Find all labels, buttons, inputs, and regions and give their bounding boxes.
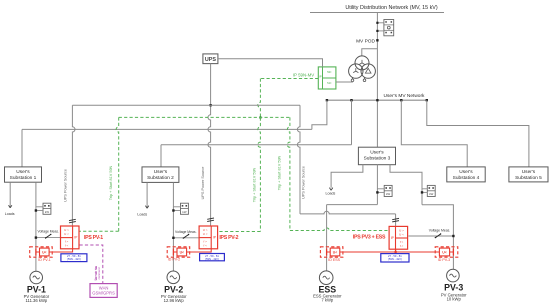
- svg-text:kW: kW: [429, 192, 433, 196]
- svg-text:Substation 2: Substation 2: [147, 175, 174, 181]
- green dashed: trip drop ESS/PV-3: [287, 117, 389, 230]
- meter PV-3 interconnection: [421, 185, 435, 196]
- svg-text:WAN: WAN: [99, 285, 109, 290]
- svg-text:User's MV Network: User's MV Network: [384, 93, 425, 99]
- wire: UPS feeder PV-1: [72, 105, 300, 226]
- generator PV-2: [167, 271, 180, 284]
- interface device ID PV-2: [167, 247, 190, 257]
- label voltage meas PV-3: [429, 229, 451, 233]
- svg-text:111.36 kWp: 111.36 kWp: [26, 298, 48, 303]
- svg-text:IP: IP: [319, 75, 322, 79]
- label trip start PV-2: [253, 167, 257, 202]
- svg-text:Loads: Loads: [5, 212, 15, 216]
- red wire: IPS PV-2 to ID PV-2: [190, 249, 211, 252]
- label PV-3: [441, 282, 467, 301]
- wire: voltage meas PV-3: [408, 233, 454, 238]
- transformer T1 (three-winding): [349, 56, 376, 82]
- label loads sub1: [5, 212, 15, 216]
- svg-text:IPS PV3 + ESS: IPS PV3 + ESS: [353, 235, 386, 241]
- label loads sub2: [137, 212, 147, 216]
- svg-text:(59N - 4kV): (59N - 4kV): [388, 257, 402, 261]
- svg-text:U <: U <: [64, 232, 69, 236]
- svg-text:U <: U <: [399, 233, 404, 237]
- svg-text:Loads: Loads: [326, 192, 336, 196]
- wire: sub3 loads stub: [329, 165, 363, 191]
- isolator on PV-2 UPS feed: [207, 218, 214, 222]
- svg-text:(59N - 4kV): (59N - 4kV): [67, 257, 81, 261]
- wire: sub2 loads stub: [145, 182, 148, 208]
- protection IPS PV-1: [61, 226, 80, 249]
- svg-text:GSM/GPRS: GSM/GPRS: [92, 291, 115, 296]
- label ID PV-1: [38, 258, 50, 262]
- label voltage meas PV-1: [38, 230, 60, 234]
- UPS: [203, 54, 218, 64]
- settings note PV-1: [61, 254, 87, 262]
- svg-text:UPS: UPS: [205, 57, 216, 63]
- svg-text:MV POD: MV POD: [356, 38, 375, 44]
- svg-text:UPS Power Source: UPS Power Source: [302, 166, 306, 199]
- svg-text:ID ESS: ID ESS: [328, 258, 340, 262]
- relay IP 59N-MV: [318, 67, 336, 89]
- wire: ESS feeder column: [327, 205, 378, 272]
- svg-text:U<: U<: [180, 250, 184, 254]
- svg-text:U<: U<: [442, 250, 446, 254]
- interface device ID PV-1: [30, 247, 53, 257]
- svg-text:Substation 3: Substation 3: [364, 155, 391, 161]
- svg-text:kW: kW: [182, 210, 186, 214]
- substation 3: [358, 147, 395, 165]
- svg-text:10 kWp: 10 kWp: [447, 296, 462, 301]
- isolator on ESS UPS feed: [392, 218, 399, 222]
- utility revenue meter: [376, 20, 393, 36]
- settings note PV3+ESS: [381, 254, 409, 262]
- WAN GSM/GPRS box: [90, 284, 117, 298]
- svg-text:UPS Power Source: UPS Power Source: [201, 167, 205, 200]
- svg-text:User's: User's: [154, 169, 168, 175]
- label IPS PV-2: [219, 235, 238, 241]
- feeder line D to substation 4: [401, 100, 467, 167]
- interface device ID ESS: [320, 247, 343, 257]
- svg-text:User's: User's: [16, 169, 30, 175]
- svg-text:U <: U <: [203, 232, 208, 236]
- node MV POD: [356, 38, 379, 44]
- svg-text:(59N - 4kV): (59N - 4kV): [205, 257, 219, 261]
- svg-text:IPS PV-2: IPS PV-2: [219, 235, 238, 241]
- protection IPS PV-2: [199, 226, 218, 249]
- substation 5: [509, 167, 548, 182]
- wire: sub1 loads stub: [9, 182, 12, 208]
- svg-text:Voltage Meas.: Voltage Meas.: [429, 229, 451, 233]
- generator PV-3: [447, 269, 460, 282]
- svg-text:Substation 1: Substation 1: [10, 175, 37, 181]
- svg-text:kW: kW: [386, 192, 390, 196]
- MV bus: [326, 99, 428, 101]
- wire: MV POD drop x=377: [376, 13, 378, 148]
- green dashed: trip drop PV-2: [218, 118, 261, 232]
- svg-text:Trip + Start 81V 59N: Trip + Start 81V 59N: [253, 167, 257, 202]
- red wire: IPS PV-1 to ID PV-1: [52, 249, 72, 252]
- svg-text:kW: kW: [45, 210, 49, 214]
- svg-text:f <: f <: [65, 244, 69, 248]
- svg-text:User's: User's: [370, 149, 384, 155]
- svg-text:ID PV-2: ID PV-2: [168, 257, 180, 261]
- generator PV-1: [30, 271, 43, 284]
- label PV-2: [161, 285, 187, 304]
- utility network label: [345, 5, 438, 11]
- wire: substation 2 riser: [160, 145, 162, 167]
- substation 2: [142, 167, 179, 183]
- substation 4: [447, 167, 485, 182]
- wire: UPS feeder trunk (PV-2): [208, 64, 212, 226]
- red wire: ESS to PV-3 interconnection: [343, 249, 436, 253]
- svg-text:Trip + Start 81V 59N: Trip + Start 81V 59N: [278, 155, 282, 190]
- svg-text:Remote trip: Remote trip: [93, 266, 97, 280]
- protection IPS PV3+ESS: [389, 226, 408, 249]
- isolator on PV-1 UPS feed: [69, 219, 76, 223]
- label IP 59N-MV: [293, 72, 314, 77]
- svg-text:IPS PV-1: IPS PV-1: [84, 235, 103, 241]
- label UPS power source PV-2: [201, 167, 205, 200]
- wire: sub3 right stub to PV-3: [390, 165, 422, 205]
- wire: voltage meas PV-2: [172, 234, 199, 239]
- green dashed: trip drop PV-1: [80, 117, 119, 231]
- svg-text:Utility Distribution Network (: Utility Distribution Network (MV, 15 kV): [345, 5, 438, 11]
- settings note PV-2: [200, 254, 225, 261]
- svg-text:Voltage Meas.: Voltage Meas.: [38, 230, 60, 234]
- svg-text:command: command: [97, 267, 101, 279]
- svg-text:51N: 51N: [327, 83, 332, 85]
- wire: UPS feeder ESS/PV-3: [297, 105, 395, 226]
- svg-text:Substation 5: Substation 5: [515, 175, 542, 181]
- svg-text:f <: f <: [203, 244, 207, 248]
- generator ESS: [319, 271, 333, 285]
- meter PV-1: [35, 203, 51, 214]
- feeder line B (y=144.7): [161, 100, 352, 145]
- label loads sub3: [326, 192, 336, 196]
- svg-text:ID PV-1: ID PV-1: [38, 258, 50, 262]
- wire: PV-1 feeder column: [35, 182, 37, 271]
- magenta dashed: remote trip link: [80, 245, 103, 284]
- feeder line C to substation 5: [427, 100, 529, 167]
- svg-text:PV-3: PV-3: [444, 282, 463, 292]
- wire: relay to transformer neutral: [336, 81, 353, 83]
- svg-text:Voltage Meas.: Voltage Meas.: [175, 230, 197, 234]
- label UPS power source ESS: [302, 166, 306, 199]
- meter sub3: [376, 185, 392, 196]
- svg-text:f <: f <: [400, 244, 404, 248]
- feeder line A (y=129.4): [22, 128, 312, 130]
- label ESS: [313, 285, 342, 303]
- label IPS PV3+ESS: [353, 235, 386, 241]
- interface device ID PV-3: [435, 247, 458, 257]
- label UPS power source PV-1: [64, 169, 68, 202]
- wire: voltage meas PV-1: [35, 234, 61, 239]
- svg-text:U<: U<: [42, 250, 46, 254]
- svg-text:User's: User's: [522, 169, 536, 175]
- svg-text:Substation 4: Substation 4: [453, 175, 480, 181]
- substation 1: [5, 167, 42, 182]
- label trip start PV-1: [109, 165, 113, 200]
- label IPS PV-1: [84, 235, 103, 241]
- wire: bus jog to feeder A: [312, 100, 327, 129]
- label ID PV-3: [438, 258, 450, 262]
- wire: transformer tap: [362, 49, 378, 56]
- utility MV line: [310, 12, 444, 14]
- svg-text:UPS Power Source: UPS Power Source: [64, 169, 68, 202]
- svg-text:ID PV-3: ID PV-3: [438, 258, 450, 262]
- wire: sub3 meter drop: [376, 165, 378, 205]
- label remote trip command: [93, 266, 101, 280]
- users MV network label: [384, 93, 425, 99]
- green dashed: trip bus horizontal: [119, 116, 290, 118]
- meter PV-2: [172, 203, 188, 214]
- wire: substation 1 riser: [21, 129, 23, 167]
- green dashed: relay trip bus: [258, 79, 318, 119]
- svg-text:Trip + Start 81V 59N: Trip + Start 81V 59N: [109, 165, 113, 200]
- label ID ESS: [328, 258, 340, 262]
- label voltage meas PV-2: [175, 230, 197, 234]
- wire: PV-3 feeder column: [422, 205, 453, 269]
- svg-text:U<: U<: [333, 250, 337, 254]
- wire: UPS to relay: [218, 59, 323, 67]
- svg-text:7 kWp: 7 kWp: [321, 297, 334, 302]
- svg-text:12.96 kWp: 12.96 kWp: [164, 298, 185, 303]
- svg-text:PV-2: PV-2: [164, 285, 183, 295]
- wire: PV-2 feeder column: [172, 182, 174, 271]
- svg-text:User's: User's: [459, 169, 473, 175]
- svg-text:Loads: Loads: [137, 212, 147, 216]
- label PV-1: [24, 284, 50, 303]
- svg-text:59N: 59N: [327, 72, 332, 74]
- svg-text:IP 59N-MV: IP 59N-MV: [293, 72, 314, 77]
- label trip start ESS: [278, 155, 282, 190]
- svg-text:PV-1: PV-1: [27, 284, 46, 294]
- label ID PV-2: [168, 257, 180, 261]
